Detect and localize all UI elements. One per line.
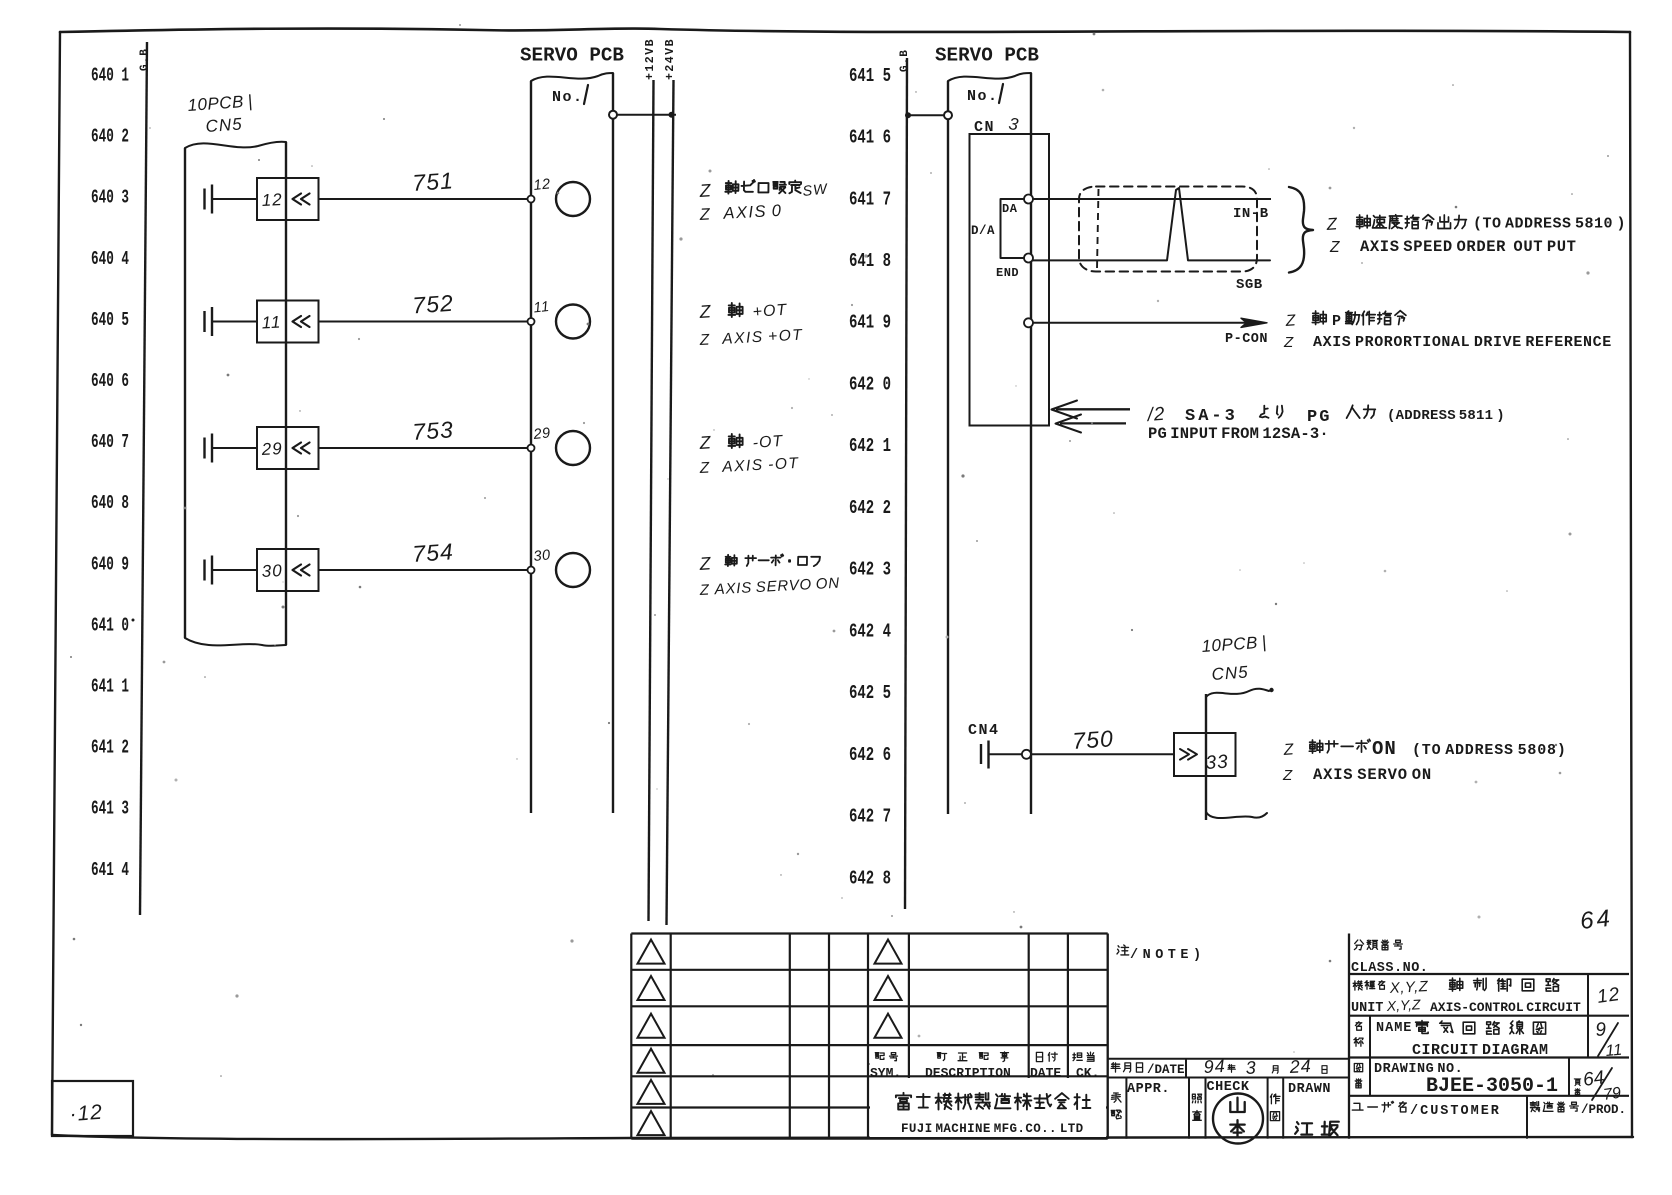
- appr col c: [1205, 1078, 1207, 1139]
- svg-text:Z: Z: [1283, 334, 1294, 351]
- name col kanji: [1354, 1022, 1363, 1046]
- customer row divider: [1526, 1096, 1528, 1139]
- svg-text:642 4: 642 4: [849, 620, 891, 642]
- svg-text:+12VB: +12VB: [644, 38, 657, 80]
- pg input wire 2: [1060, 422, 1126, 424]
- handwritten 1 of No.1 right: [999, 84, 1003, 103]
- svg-text:CIRCUIT DIAGRAM: CIRCUIT DIAGRAM: [1412, 1042, 1549, 1059]
- sakuzu vertical kanji: [1270, 1094, 1280, 1121]
- svg-text:754: 754: [412, 538, 455, 567]
- svg-text:(TO ADDRESS 5810 ): (TO ADDRESS 5810 ): [1473, 216, 1626, 233]
- brace right: [1289, 187, 1313, 273]
- svg-text:SGB: SGB: [1236, 277, 1263, 293]
- name kanji: [1416, 1021, 1546, 1035]
- double chevron arrow row 3: [293, 443, 310, 454]
- wire SGB with pulse: [1033, 188, 1270, 260]
- border frame bottom: [52, 1135, 1633, 1139]
- node on servo pcb row 2: [528, 318, 535, 325]
- appr col a: [1125, 1078, 1127, 1139]
- wire gb to pcb2: [906, 114, 944, 116]
- svg-text:752: 752: [412, 290, 455, 319]
- wire 754 box to servo pcb: [319, 569, 532, 571]
- capacitor contact symbol CN4: [981, 741, 989, 769]
- svg-text:Z: Z: [1329, 239, 1340, 256]
- annot zero set SW kanji: [725, 180, 801, 194]
- svg-text:641 6: 641 6: [849, 127, 891, 149]
- svg-text:-OT: -OT: [752, 433, 784, 452]
- wire pcb to +24VB rail: [617, 114, 676, 116]
- svg-text:640 5: 640 5: [91, 309, 129, 331]
- svg-text:642 3: 642 3: [849, 559, 891, 581]
- shounin vertical kanji: [1111, 1093, 1121, 1119]
- title block frame: [1348, 934, 1350, 1139]
- unit kanji: [1449, 978, 1558, 991]
- svg-text:29: 29: [532, 425, 552, 443]
- wire capacitor to box row 1: [212, 198, 257, 200]
- svg-text:CN5: CN5: [205, 114, 243, 136]
- wire capacitor to box row 4: [212, 569, 257, 571]
- note area left edge: [1107, 934, 1109, 1139]
- wire P-CON: [1033, 322, 1258, 324]
- svg-text:30: 30: [261, 561, 283, 581]
- capacitor contact symbol row 2: [205, 307, 213, 336]
- cn5 box wavy bottom: [185, 638, 286, 646]
- wire IN-B: [1033, 198, 1271, 200]
- svg-text:SYM.: SYM.: [870, 1066, 901, 1081]
- node on servo pcb row 4: [528, 567, 535, 574]
- svg-text:(ADDRESS 5811 ): (ADDRESS 5811 ): [1387, 408, 1505, 424]
- svg-text:·12: ·12: [69, 1101, 104, 1126]
- svg-text:641 8: 641 8: [849, 250, 891, 272]
- svg-text:NAME: NAME: [1376, 1021, 1412, 1036]
- svg-text:753: 753: [412, 416, 455, 445]
- shield dashed capsule: [1079, 187, 1257, 272]
- servo pcb2 wavy top: [948, 73, 1031, 81]
- svg-text:P-CON: P-CON: [1225, 332, 1268, 347]
- prod kanji: [1530, 1102, 1578, 1112]
- svg-text:/2: /2: [1145, 404, 1166, 426]
- node on pcb2 right edge cn4: [1022, 750, 1031, 759]
- svg-text:/DATE: /DATE: [1147, 1063, 1185, 1077]
- cn5 box right edge: [285, 142, 287, 645]
- svg-text:DRAWN: DRAWN: [1288, 1082, 1331, 1097]
- svg-text:642 2: 642 2: [849, 497, 891, 519]
- svg-text:SERVO PCB: SERVO PCB: [935, 45, 1039, 67]
- servo pcb2 right edge: [1030, 73, 1032, 814]
- svg-text:AXIS SPEED ORDER OUT PUT: AXIS SPEED ORDER OUT PUT: [1360, 238, 1577, 256]
- terminal box 12: [257, 178, 319, 220]
- annot servo lock kanji: [725, 554, 820, 566]
- svg-text:750: 750: [1072, 725, 1115, 754]
- svg-text:640 1: 640 1: [91, 65, 129, 87]
- arrowhead P-CON: [1241, 318, 1267, 327]
- double chevron arrow cn4: [1180, 749, 1197, 760]
- cn5 right line: [1205, 694, 1207, 820]
- header hizuke kanji: [1036, 1052, 1057, 1061]
- name row page divider: [1587, 1016, 1589, 1058]
- wire 750 cn4 to box33: [989, 753, 1175, 755]
- pcb pin circle row 2: [556, 305, 590, 339]
- annot -OT kanji: [728, 434, 742, 448]
- svg-text:642 7: 642 7: [849, 806, 891, 828]
- double chevron arrow row 1: [293, 194, 310, 205]
- appr col e: [1282, 1078, 1284, 1139]
- wire 752 box to servo pcb: [319, 321, 532, 323]
- connector CN3 box: [970, 134, 1050, 426]
- p action kanji2: [1346, 311, 1406, 325]
- revision table frame: [631, 932, 1107, 934]
- svg-text:641 3: 641 3: [91, 798, 129, 820]
- header teisei kiji kanji: [937, 1052, 1008, 1062]
- terminal box 30: [257, 549, 319, 591]
- date day kanji: [1322, 1066, 1327, 1074]
- svg-text:DATE: DATE: [1030, 1066, 1061, 1081]
- pcb pin circle row 4: [556, 553, 590, 587]
- cn5 box wavy top: [185, 142, 286, 148]
- svg-text:CLASS.NO.: CLASS.NO.: [1351, 961, 1428, 976]
- svg-text:No.: No.: [552, 89, 584, 106]
- servo on kanji: [1309, 739, 1370, 753]
- svg-text:SERVO PCB: SERVO PCB: [520, 45, 624, 67]
- svg-text:640 6: 640 6: [91, 370, 129, 392]
- servo pcb2 left edge: [947, 81, 949, 814]
- shousa vertical kanji: [1192, 1094, 1201, 1120]
- svg-text:X,Y,Z: X,Y,Z: [1388, 978, 1429, 997]
- svg-text:No.: No.: [967, 88, 999, 105]
- border frame top: [60, 29, 1630, 32]
- dwg row left divider: [1369, 1058, 1371, 1096]
- svg-text:PG INPUT FROM 12SA-3·: PG INPUT FROM 12SA-3·: [1148, 425, 1329, 443]
- appr col d: [1267, 1078, 1269, 1139]
- svg-text:641 0: 641 0: [91, 614, 129, 636]
- svg-text:641 9: 641 9: [849, 312, 891, 334]
- name sheet slash: [1598, 1023, 1618, 1056]
- svg-text:X,Y,Z: X,Y,Z: [1385, 996, 1421, 1014]
- revision triangle left row 4: [638, 1049, 665, 1073]
- name row left divider: [1369, 1016, 1371, 1058]
- svg-text:640 7: 640 7: [91, 431, 129, 453]
- double chevron arrow row 4: [293, 565, 310, 576]
- border frame left: [52, 32, 60, 1135]
- svg-text:CN5: CN5: [1211, 662, 1249, 684]
- svg-text:+OT: +OT: [752, 302, 788, 321]
- svg-text:642 0: 642 0: [849, 373, 891, 395]
- pin circle P-CON: [1024, 318, 1033, 327]
- svg-text:640 3: 640 3: [91, 187, 129, 209]
- revision triangle right row 1: [875, 940, 902, 964]
- page col kanji: [1574, 1079, 1580, 1096]
- svg-text:/NOTE): /NOTE): [1130, 948, 1206, 963]
- G.B bus line left section: [140, 42, 147, 915]
- p action kanji: [1312, 311, 1326, 325]
- revision triangle right row 2: [875, 976, 902, 1000]
- capacitor contact symbol row 4: [205, 556, 213, 585]
- header tantou kanji: [1073, 1052, 1094, 1061]
- svg-text:AXIS PRORORTIONAL DRIVE REFERE: AXIS PRORORTIONAL DRIVE REFERENCE: [1313, 334, 1612, 351]
- servo pcb right edge: [612, 73, 614, 813]
- svg-text:11: 11: [1605, 1042, 1623, 1060]
- svg-text:642 8: 642 8: [849, 867, 891, 889]
- svg-text:Z: Z: [1325, 214, 1338, 234]
- dot after 6410 label: [132, 619, 135, 622]
- svg-text:640 2: 640 2: [91, 126, 129, 148]
- company cell white patch: [870, 1078, 1106, 1137]
- svg-text:641 4: 641 4: [91, 859, 129, 881]
- svg-text:642 5: 642 5: [849, 682, 891, 704]
- capacitor contact symbol row 3: [205, 434, 213, 463]
- svg-text:641 7: 641 7: [849, 188, 891, 210]
- svg-text:G.B: G.B: [139, 48, 151, 71]
- terminal box 11: [257, 301, 319, 343]
- revision triangle left row 1: [638, 940, 665, 964]
- capacitor contact symbol row 1: [205, 185, 213, 214]
- pg jp yori: [1260, 406, 1283, 418]
- revision triangle right row 3: [875, 1014, 902, 1038]
- pcb pin circle row 3: [556, 431, 590, 465]
- svg-text:640 8: 640 8: [91, 492, 129, 514]
- D/A converter bracket: [1001, 199, 1029, 258]
- servo pcb left edge: [530, 81, 532, 813]
- svg-text:D/A: D/A: [971, 224, 995, 238]
- svg-text:+24VB: +24VB: [664, 38, 677, 80]
- svg-text:END: END: [996, 266, 1019, 280]
- annot +OT kanji: [728, 303, 742, 317]
- junction dot on gb bus: [905, 112, 911, 118]
- svg-text:(TO ADDRESS 5808): (TO ADDRESS 5808): [1412, 742, 1567, 759]
- pg input wire 1: [1056, 408, 1130, 410]
- node servo pcb to rails: [609, 111, 617, 119]
- svg-text:12: 12: [533, 176, 552, 194]
- svg-text:751: 751: [412, 167, 455, 196]
- revision triangle left row 5: [638, 1080, 665, 1104]
- svg-text:IN-B: IN-B: [1233, 206, 1269, 222]
- svg-text:P: P: [1332, 313, 1341, 330]
- dwg col kanji: [1354, 1064, 1362, 1088]
- svg-text:CK.: CK.: [1076, 1066, 1099, 1081]
- svg-text:29: 29: [260, 439, 283, 459]
- svg-text:12: 12: [261, 190, 283, 210]
- handwritten 1 of No.1: [584, 85, 588, 104]
- date row bottom: [1108, 1077, 1349, 1079]
- page slash: [1592, 1068, 1612, 1100]
- date row top: [1108, 1058, 1349, 1060]
- svg-text:641 1: 641 1: [91, 676, 129, 698]
- customer kanji: [1352, 1101, 1406, 1112]
- svg-text:Z: Z: [1282, 767, 1293, 784]
- speed order kanji: [1356, 215, 1466, 229]
- svg-text:11: 11: [533, 299, 551, 317]
- terminal box 33: [1174, 733, 1236, 776]
- class no kanji: [1354, 940, 1402, 950]
- G.B bus line right section: [905, 58, 907, 909]
- wire 753 box to servo pcb: [319, 447, 532, 449]
- svg-text:24: 24: [1288, 1056, 1312, 1077]
- terminal box 29: [257, 427, 319, 469]
- svg-text:/PROD.: /PROD.: [1581, 1103, 1626, 1117]
- appr col b: [1188, 1078, 1190, 1139]
- date col divider: [1185, 1059, 1187, 1078]
- cn5 box left edge: [184, 148, 186, 638]
- unit row page divider: [1587, 974, 1589, 1016]
- svg-text:11: 11: [261, 312, 282, 332]
- svg-text:FUJI MACHINE MFG.CO.. LTD: FUJI MACHINE MFG.CO.. LTD: [901, 1122, 1084, 1136]
- svg-text:DESCRIPTION: DESCRIPTION: [925, 1066, 1011, 1081]
- sheet number box: [52, 1081, 133, 1136]
- date year kanji: [1228, 1065, 1235, 1073]
- wire 751 box to servo pcb: [319, 198, 532, 200]
- svg-text:BJEE-3050-1: BJEE-3050-1: [1426, 1075, 1558, 1098]
- node on servo pcb row 1: [528, 196, 535, 203]
- svg-text:SA-3: SA-3: [1185, 407, 1238, 426]
- double chevron arrow row 2: [293, 316, 310, 327]
- revision triangle left row 6: [638, 1111, 665, 1135]
- svg-text:79: 79: [1602, 1085, 1622, 1104]
- svg-text:641 2: 641 2: [91, 737, 129, 759]
- svg-text:DA: DA: [1002, 202, 1018, 216]
- date month kanji: [1272, 1066, 1278, 1074]
- hanko yamamoto kanji: [1230, 1098, 1244, 1138]
- revision triangle left row 3: [638, 1014, 665, 1038]
- shield capsule inner dashed line: [1097, 189, 1099, 269]
- border frame right: [1630, 32, 1632, 1137]
- unit kanji small: [1353, 981, 1385, 990]
- svg-text:641 5: 641 5: [849, 65, 891, 87]
- svg-text:APPR.: APPR.: [1127, 1082, 1170, 1097]
- pg arrowhead 2: [1056, 415, 1082, 433]
- pin circle END: [1024, 254, 1033, 263]
- svg-text:AXIS SERVO ON: AXIS SERVO ON: [1313, 766, 1432, 784]
- svg-text:UNIT: UNIT: [1351, 1001, 1383, 1016]
- svg-text:3: 3: [1245, 1057, 1257, 1078]
- dwg row page divider: [1568, 1058, 1570, 1096]
- svg-text:640 9: 640 9: [91, 553, 129, 575]
- svg-text:642 1: 642 1: [849, 435, 891, 457]
- power rail +12VB: [649, 80, 654, 921]
- svg-text:640 4: 640 4: [91, 248, 129, 270]
- servo pcb wavy top: [531, 73, 613, 81]
- svg-text:SW: SW: [802, 181, 829, 200]
- pin circle DA: [1024, 195, 1033, 204]
- drawn esaka kanji: [1295, 1122, 1339, 1136]
- svg-text:AXIS-CONTROL CIRCUIT: AXIS-CONTROL CIRCUIT: [1430, 1000, 1581, 1015]
- revision triangle left row 2: [638, 976, 665, 1000]
- cn5 right wavy bottom: [1206, 812, 1267, 818]
- scan speckle dots (decorative): [557, 192, 560, 195]
- pcb pin circle row 1: [556, 182, 590, 216]
- svg-text:CN4: CN4: [968, 722, 1000, 739]
- cn5 right wavy top: [1206, 689, 1269, 697]
- svg-text:CHECK: CHECK: [1207, 1080, 1250, 1095]
- svg-text:30: 30: [533, 547, 552, 565]
- pg arrowhead 1: [1052, 401, 1078, 419]
- svg-text:33: 33: [1205, 751, 1230, 774]
- hanko stamp circle: [1213, 1094, 1263, 1144]
- svg-text:642 6: 642 6: [849, 744, 891, 766]
- node on servo pcb row 3: [528, 445, 535, 452]
- wire capacitor to box row 2: [212, 321, 257, 323]
- svg-text:G.B: G.B: [899, 49, 911, 72]
- svg-text:/CUSTOMER: /CUSTOMER: [1410, 1104, 1501, 1119]
- pg jp nyuryoku: [1347, 405, 1376, 418]
- svg-text:64: 64: [1579, 905, 1614, 935]
- company name kanji: [896, 1093, 1091, 1110]
- node pcb2 left: [944, 111, 952, 119]
- junction dot on +24VB rail: [669, 112, 675, 118]
- svg-text:94: 94: [1203, 1056, 1226, 1077]
- header kigou kanji: [875, 1053, 897, 1061]
- cn5 wavy top dot: [1269, 688, 1273, 692]
- power rail +24VB: [667, 80, 674, 925]
- wire capacitor to box row 3: [212, 447, 257, 449]
- date label kanji: [1111, 1063, 1143, 1072]
- svg-text:ON: ON: [1372, 738, 1397, 760]
- svg-text:12: 12: [1596, 984, 1622, 1008]
- note kanji: [1117, 945, 1129, 955]
